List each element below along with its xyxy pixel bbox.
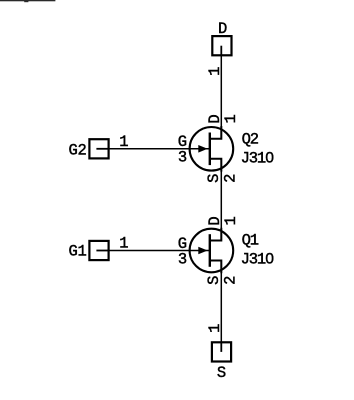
transistor Q2 drain lead (209, 126, 221, 139)
svg-text:3: 3 (178, 251, 187, 269)
svg-text:1: 1 (222, 216, 240, 225)
transistor Q2 source lead (209, 159, 221, 172)
svg-text:1: 1 (206, 67, 224, 76)
transistor Q1 gate arrow (198, 247, 207, 255)
svg-text:3: 3 (178, 149, 187, 167)
svg-text:Q1: Q1 (242, 232, 259, 250)
svg-text:1: 1 (119, 234, 128, 252)
wire Q1 source to S (220, 261, 222, 343)
svg-text:1: 1 (206, 324, 224, 333)
transistor Q2 body circle (190, 127, 234, 171)
connector G1 box (89, 241, 108, 260)
svg-text:1: 1 (222, 114, 240, 123)
svg-text:2: 2 (221, 276, 239, 285)
svg-text:1: 1 (119, 133, 128, 151)
transistor Q1 source lead (209, 261, 221, 274)
wire Q2 source to Q1 drain (220, 159, 222, 241)
connector G2 pin stub (96, 148, 108, 150)
svg-text:G2: G2 (69, 142, 87, 160)
transistor Q1 drain lead (209, 228, 221, 241)
svg-text:G1: G1 (69, 243, 87, 261)
transistor Q2 channel bar (209, 133, 211, 166)
wire D to Q2 drain (220, 55, 222, 139)
connector S pin stub (220, 342, 222, 352)
transistor Q1 channel bar (209, 234, 211, 267)
connector S box (212, 342, 231, 361)
connector G1 pin stub (96, 250, 108, 252)
svg-text:S: S (205, 174, 223, 183)
partial toolbar line top-left (0, 0, 55, 1)
transistor Q1 body circle (190, 229, 234, 273)
svg-text:2: 2 (221, 174, 239, 183)
transistor Q2 gate arrow (198, 145, 207, 153)
svg-text:S: S (217, 364, 226, 382)
connector D pin stub (220, 46, 222, 56)
connector D box (212, 36, 231, 55)
svg-text:Q2: Q2 (242, 130, 259, 148)
connector G2 box (89, 139, 108, 158)
wire G2 to Q2 gate (109, 148, 210, 150)
wire G1 to Q1 gate (109, 250, 210, 252)
svg-text:S: S (205, 276, 223, 285)
